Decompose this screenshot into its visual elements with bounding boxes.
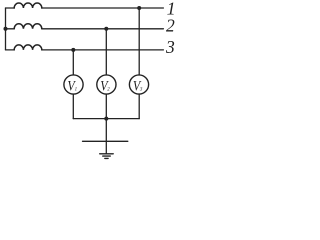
- wire drop line1 to V3: [138, 8, 140, 75]
- node on left bus: [4, 27, 8, 31]
- inductor L3: [14, 45, 42, 50]
- wire bottom bus: [73, 118, 139, 120]
- wire V2 bottom lead: [105, 94, 107, 119]
- wire line 3: [42, 49, 164, 51]
- wire drop line2 to V2: [105, 29, 107, 75]
- wire left vertical bus: [5, 8, 7, 50]
- wire V1 bottom lead: [72, 94, 74, 119]
- wire line3 left stub: [6, 49, 15, 51]
- inductor L2: [14, 24, 42, 29]
- wire V3 bottom lead: [138, 94, 140, 119]
- node on line 1: [137, 6, 141, 10]
- ground: [100, 154, 114, 159]
- wire drop line3 to V1: [72, 50, 74, 75]
- voltmeter V3 circle: [129, 75, 148, 94]
- node on line 3: [71, 48, 75, 52]
- wire line 1: [42, 7, 164, 9]
- svg-text:2: 2: [166, 16, 175, 36]
- svg-text:1: 1: [75, 88, 78, 93]
- voltmeter V1 circle: [64, 75, 83, 94]
- inductor L1: [14, 3, 42, 8]
- node on line 2: [104, 27, 108, 31]
- wire earth line: [83, 140, 128, 142]
- voltmeter V2 circle: [97, 75, 116, 94]
- wire line 2: [42, 28, 164, 30]
- wire line1 left stub: [6, 7, 15, 9]
- node on bottom bus: [104, 117, 108, 121]
- wire ground stem: [105, 119, 107, 154]
- svg-text:3: 3: [165, 37, 175, 57]
- wire line2 left stub: [6, 28, 15, 30]
